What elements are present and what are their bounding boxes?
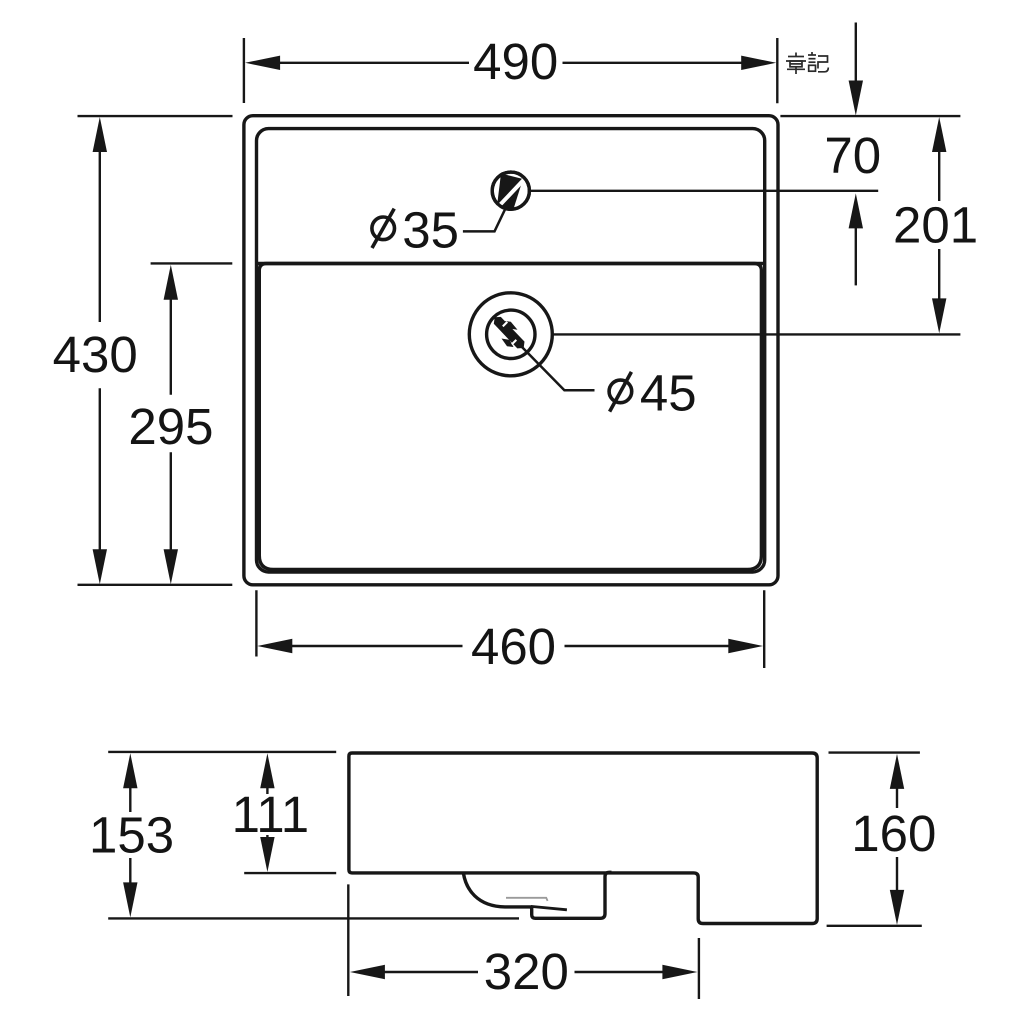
svg-text:70: 70 xyxy=(824,127,881,184)
svg-text:460: 460 xyxy=(471,618,556,675)
svg-text:430: 430 xyxy=(53,326,138,383)
svg-text:295: 295 xyxy=(128,398,213,455)
svg-text:320: 320 xyxy=(484,943,569,1000)
svg-text:45: 45 xyxy=(640,365,697,422)
svg-text:201: 201 xyxy=(893,197,978,254)
svg-text:111: 111 xyxy=(232,786,310,843)
svg-text:490: 490 xyxy=(473,33,558,90)
svg-text:153: 153 xyxy=(89,806,174,863)
svg-text:35: 35 xyxy=(402,202,459,259)
svg-text:160: 160 xyxy=(851,805,936,862)
